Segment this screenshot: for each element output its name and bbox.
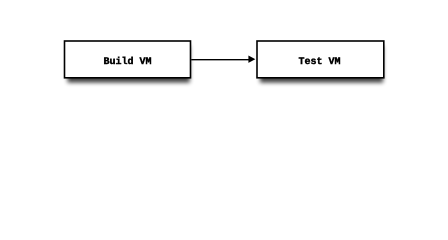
node Build VM [65, 41, 191, 78]
svg-text:Build VM: Build VM [103, 56, 151, 68]
node Test VM [257, 41, 384, 78]
shadow of Build VM box [68, 46, 190, 83]
wire arrow Build VM -> Test VM [191, 56, 255, 63]
svg-text:Test VM: Test VM [298, 57, 340, 68]
shadow of Test VM box [260, 46, 383, 83]
